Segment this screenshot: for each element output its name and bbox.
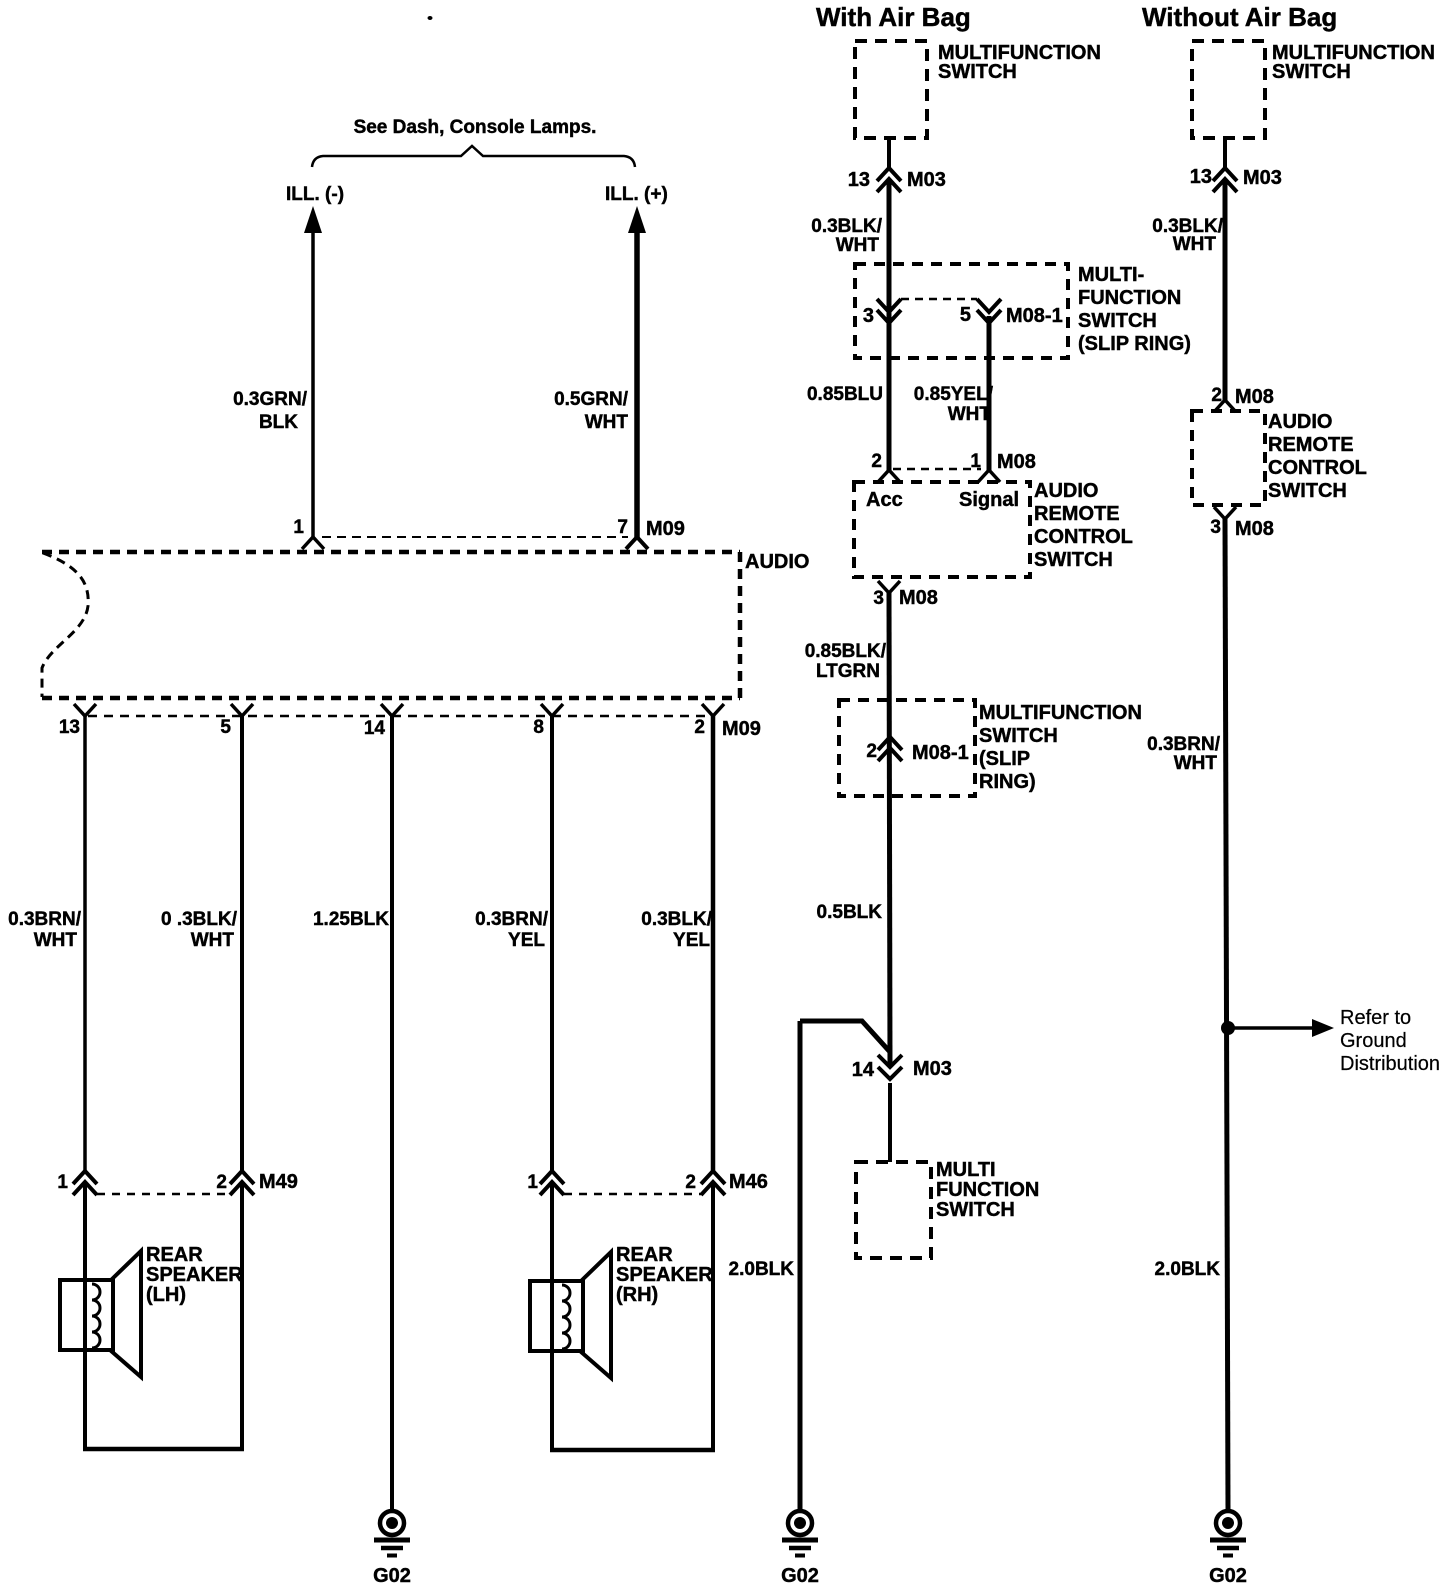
svg-text:Refer to: Refer to: [1340, 1007, 1411, 1029]
slip ring 2 pin 2 double chevron: [878, 737, 902, 761]
arrow to ground distribution: [1228, 1026, 1312, 1030]
connector M03 pin 13 double chevron: [1213, 168, 1237, 192]
wire to multi function switch: [888, 1083, 892, 1162]
svg-text:M08-1: M08-1: [1006, 305, 1063, 327]
AUDIO unit box (dashed): [42, 550, 740, 555]
svg-text:2.0BLK: 2.0BLK: [1155, 1259, 1221, 1280]
svg-text:ILL. (-): ILL. (-): [286, 184, 344, 205]
svg-text:Acc: Acc: [866, 489, 903, 511]
svg-text:LTGRN: LTGRN: [816, 661, 880, 682]
svg-text:0.85BLU: 0.85BLU: [807, 384, 883, 405]
svg-text:WHT: WHT: [836, 235, 880, 256]
ground G02 (right): [1209, 1511, 1247, 1587]
multi-function switch slip ring box: [855, 264, 1068, 358]
svg-text:M03: M03: [913, 1058, 952, 1080]
wire 0.85BLK/LTGRN down to multifunction switch: [889, 593, 890, 1067]
svg-text:0.3BRN/: 0.3BRN/: [8, 909, 82, 930]
connector M49 pin 1 double chevron: [73, 1171, 97, 1195]
svg-text:MULTIFUNCTION: MULTIFUNCTION: [979, 702, 1142, 724]
svg-text:5: 5: [960, 304, 971, 326]
svg-text:2: 2: [866, 741, 877, 762]
svg-text:0.3BLK/: 0.3BLK/: [811, 216, 882, 237]
svg-text:M46: M46: [729, 1171, 768, 1193]
pin 2 terminal (Acc): [878, 470, 900, 482]
svg-text:2.0BLK: 2.0BLK: [729, 1259, 795, 1280]
speck dot: [428, 16, 433, 20]
svg-text:M08: M08: [899, 587, 938, 609]
svg-text:SWITCH: SWITCH: [936, 1199, 1015, 1221]
rear speaker RH body: [530, 1281, 583, 1351]
svg-text:See Dash, Console Lamps.: See Dash, Console Lamps.: [354, 117, 597, 138]
svg-text:(LH): (LH): [146, 1284, 186, 1306]
svg-text:FUNCTION: FUNCTION: [1078, 287, 1181, 309]
connector M03 pin 13 double chevron: [877, 168, 901, 192]
rear speaker RH horn: [580, 1252, 611, 1378]
pin 7 terminal: [626, 537, 648, 549]
svg-text:2: 2: [694, 717, 705, 738]
wire 0.3BLK/WHT (no airbag): [1223, 179, 1228, 400]
svg-text:SWITCH: SWITCH: [1078, 310, 1157, 332]
pin 8 terminal: [541, 704, 563, 716]
wire speaker LH -: [240, 1182, 244, 1449]
svg-text:(SLIP: (SLIP: [979, 748, 1030, 770]
multi function switch box (bottom): [856, 1162, 931, 1258]
pin 2 terminal: [1214, 400, 1236, 412]
connector M09 dashed line (bottom): [88, 715, 707, 718]
svg-text:M08: M08: [1235, 386, 1274, 408]
svg-text:1: 1: [57, 1172, 68, 1193]
svg-text:AUDIO: AUDIO: [1268, 411, 1332, 433]
wire 0.3BRN/WHT to ground: [1225, 519, 1228, 1509]
svg-text:G02: G02: [1209, 1565, 1247, 1587]
svg-text:FUNCTION: FUNCTION: [936, 1179, 1039, 1201]
svg-text:(SLIP RING): (SLIP RING): [1078, 333, 1191, 355]
svg-text:WHT: WHT: [191, 930, 235, 951]
svg-text:WHT: WHT: [34, 930, 78, 951]
wire 1.25BLK: [390, 716, 394, 1509]
svg-text:G02: G02: [781, 1565, 819, 1587]
wire 0.5GRN/WHT up-arrow: [628, 206, 646, 233]
connector M08 dashed line: [893, 468, 981, 471]
svg-text:WHT: WHT: [1174, 753, 1218, 774]
wire 0.85YEL/WHT: [987, 316, 992, 470]
svg-text:0.3BLK/: 0.3BLK/: [641, 909, 712, 930]
svg-text:SWITCH: SWITCH: [1034, 549, 1113, 571]
svg-text:0.3BRN/: 0.3BRN/: [1147, 734, 1221, 755]
wire from multifunction switch: [1223, 138, 1227, 168]
svg-text:AUDIO: AUDIO: [745, 551, 809, 573]
audio remote control switch box (right): [1192, 411, 1265, 505]
svg-text:M03: M03: [907, 169, 946, 191]
rear speaker LH body: [60, 1280, 113, 1350]
multifunction switch box (top, with airbag): [855, 41, 927, 138]
svg-text:M08: M08: [1235, 518, 1274, 540]
connector M46 dashed line: [564, 1193, 701, 1196]
svg-text:ILL. (+): ILL. (+): [605, 184, 668, 205]
slip ring pin 5 double chevron: [977, 299, 1001, 323]
multifunction switch slip ring box 2: [839, 700, 975, 796]
svg-text:(RH): (RH): [616, 1284, 658, 1306]
svg-text:SPEAKER: SPEAKER: [146, 1264, 243, 1286]
svg-text:REAR: REAR: [616, 1244, 673, 1266]
AUDIO box torn left edge: [42, 553, 88, 697]
svg-text:1.25BLK: 1.25BLK: [313, 909, 389, 930]
svg-text:RING): RING): [979, 771, 1036, 793]
svg-text:1: 1: [970, 451, 981, 472]
svg-text:SWITCH: SWITCH: [979, 725, 1058, 747]
wire 0.3BLK/WHT (airbag): [887, 179, 892, 470]
svg-text:Ground: Ground: [1340, 1030, 1407, 1052]
svg-text:1: 1: [527, 1172, 538, 1193]
svg-text:0.3BRN/: 0.3BRN/: [475, 909, 549, 930]
svg-text:M03: M03: [1243, 167, 1282, 189]
wire 0.3GRN/BLK up-arrow: [304, 206, 322, 233]
pin 14 terminal: [381, 704, 403, 716]
svg-text:CONTROL: CONTROL: [1034, 526, 1133, 548]
svg-text:SWITCH: SWITCH: [1268, 480, 1347, 502]
svg-text:13: 13: [59, 717, 80, 738]
pin 1 terminal (Signal): [978, 470, 1000, 482]
rear speaker LH coil: [92, 1284, 100, 1348]
svg-text:M49: M49: [259, 1171, 298, 1193]
svg-text:3: 3: [1210, 517, 1221, 538]
wire 0.3BRN/WHT: [83, 716, 87, 1171]
connector M46 pin 1 double chevron: [540, 1171, 564, 1195]
svg-text:BLK: BLK: [259, 412, 298, 433]
svg-text:2: 2: [216, 1172, 227, 1193]
svg-text:7: 7: [617, 517, 628, 538]
svg-text:2: 2: [871, 451, 882, 472]
svg-text:3: 3: [873, 588, 884, 609]
svg-text:With Air Bag: With Air Bag: [816, 2, 971, 32]
svg-text:5: 5: [220, 717, 231, 738]
rear speaker LH horn: [110, 1251, 141, 1377]
wire 0.3BLK/WHT: [240, 716, 244, 1171]
wire branch to ground: [800, 1021, 890, 1052]
wire 2.0BLK (middle): [798, 1021, 803, 1509]
wire 0.3BLK/YEL: [711, 716, 716, 1171]
svg-text:0.5GRN/: 0.5GRN/: [554, 389, 629, 410]
wire speaker RH bottom rail: [550, 1448, 715, 1453]
svg-text:2: 2: [685, 1172, 696, 1193]
svg-text:MULTI: MULTI: [936, 1159, 996, 1181]
svg-text:0.85BLK/: 0.85BLK/: [805, 641, 887, 662]
wire 0.3BRN/YEL: [550, 716, 554, 1171]
svg-text:SWITCH: SWITCH: [1272, 61, 1351, 83]
ground G02 (middle): [781, 1511, 819, 1587]
svg-text:WHT: WHT: [948, 404, 992, 425]
wire speaker LH +: [83, 1182, 87, 1449]
svg-text:G02: G02: [373, 1565, 411, 1587]
connector M46 pin 2 double chevron: [701, 1171, 725, 1195]
wire from multifunction switch: [887, 138, 891, 168]
slip ring pin 3 double chevron: [877, 299, 901, 323]
svg-text:M08-1: M08-1: [912, 742, 969, 764]
svg-text:AUDIO: AUDIO: [1034, 480, 1098, 502]
rear speaker RH coil: [562, 1285, 570, 1349]
svg-text:0.85YEL/: 0.85YEL/: [914, 384, 994, 405]
svg-text:14: 14: [364, 718, 386, 739]
svg-text:MULTI-: MULTI-: [1078, 264, 1144, 286]
pin 3 terminal (bottom of ARCS): [878, 581, 900, 593]
svg-text:YEL: YEL: [508, 930, 545, 951]
svg-text:13: 13: [1190, 166, 1212, 188]
svg-text:8: 8: [533, 717, 544, 738]
svg-text:WHT: WHT: [585, 412, 629, 433]
svg-text:WHT: WHT: [1173, 234, 1217, 255]
pin 1 terminal: [302, 537, 324, 549]
connector M03 pin 14 double chevron: [878, 1055, 902, 1079]
multifunction switch box (top, without airbag): [1192, 41, 1265, 138]
svg-text:REMOTE: REMOTE: [1034, 503, 1120, 525]
junction node: [1221, 1021, 1235, 1035]
connector M49 dashed line: [97, 1193, 230, 1196]
svg-text:13: 13: [848, 169, 870, 191]
audio remote control switch box: [854, 482, 1030, 577]
slip ring internal dashed link: [901, 298, 977, 301]
pin 13 terminal: [74, 704, 96, 716]
pin 3 terminal: [1214, 507, 1236, 519]
svg-text:Signal: Signal: [959, 489, 1019, 511]
svg-text:M08: M08: [997, 451, 1036, 473]
svg-text:Without Air Bag: Without Air Bag: [1142, 2, 1337, 32]
svg-text:14: 14: [852, 1059, 875, 1081]
wire speaker LH bottom rail: [83, 1447, 244, 1452]
svg-text:SWITCH: SWITCH: [938, 61, 1017, 83]
svg-text:CONTROL: CONTROL: [1268, 457, 1367, 479]
wire speaker RH -: [711, 1182, 715, 1450]
svg-text:REAR: REAR: [146, 1244, 203, 1266]
ground G02 (left): [373, 1511, 411, 1587]
svg-text:0.3GRN/: 0.3GRN/: [233, 389, 308, 410]
pin 2 terminal: [702, 704, 724, 716]
svg-text:1: 1: [293, 517, 304, 538]
svg-text:3: 3: [863, 305, 874, 327]
svg-text:0.5BLK: 0.5BLK: [817, 902, 883, 923]
wire speaker RH +: [550, 1182, 554, 1450]
svg-text:M09: M09: [646, 518, 685, 540]
svg-text:REMOTE: REMOTE: [1268, 434, 1354, 456]
connector M49 pin 2 double chevron: [230, 1171, 254, 1195]
svg-text:SPEAKER: SPEAKER: [616, 1264, 713, 1286]
brace: [312, 146, 635, 167]
pin 5 terminal: [231, 704, 253, 716]
svg-text:M09: M09: [722, 718, 761, 740]
svg-text:Distribution: Distribution: [1340, 1053, 1440, 1075]
connector M09 dashed line (top): [322, 536, 628, 538]
svg-text:0 .3BLK/: 0 .3BLK/: [161, 909, 238, 930]
svg-text:YEL: YEL: [673, 930, 710, 951]
